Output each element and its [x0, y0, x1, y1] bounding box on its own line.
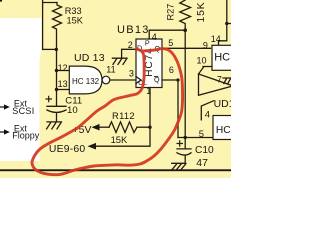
wire main vertical [56, 49, 58, 105]
wire pin 5 to pin 9 [162, 47, 211, 49]
svg-text:P: P [145, 39, 150, 48]
svg-text:3: 3 [129, 68, 134, 78]
ground C11 [47, 113, 62, 129]
bottom bus line [0, 169, 231, 171]
wire pin 10 stub [203, 66, 212, 68]
resistor R112 [109, 122, 137, 133]
wire pin 13 [57, 89, 70, 91]
resistor R27 [180, 0, 191, 30]
svg-text:13: 13 [58, 79, 68, 89]
red annotation loop [32, 49, 183, 175]
node R112 junction [148, 126, 151, 129]
wire pin 6 [162, 80, 178, 138]
svg-text:15K: 15K [196, 2, 207, 23]
svg-text:C10: C10 [195, 145, 214, 156]
svg-text:HC 132: HC 132 [72, 77, 100, 86]
capacitor C10 [177, 138, 191, 163]
svg-text:5: 5 [199, 128, 204, 139]
node R27 preset junction [183, 28, 187, 32]
svg-text:4: 4 [152, 32, 157, 42]
resistor R33 [53, 3, 62, 50]
ground C10 [172, 163, 186, 169]
wire junction h [43, 48, 57, 50]
flipflop HC74 UB13 [136, 39, 162, 88]
svg-text:10: 10 [67, 105, 78, 116]
capacitor C11 plus [46, 96, 53, 102]
wire R27 rail down [184, 30, 186, 137]
svg-text:UD1: UD1 [214, 99, 231, 110]
+5V arrow [92, 124, 100, 131]
svg-text:15K: 15K [67, 16, 84, 26]
svg-text:12: 12 [58, 63, 68, 73]
wire top jog [43, 2, 57, 4]
svg-text:7: 7 [217, 75, 222, 85]
svg-text:UB13: UB13 [117, 24, 150, 36]
svg-text:2: 2 [128, 40, 133, 50]
svg-text:47: 47 [196, 158, 208, 169]
wire pin 2 [122, 49, 136, 58]
Ext Floppy arrow [0, 129, 10, 134]
wire gate output to pin 3 [110, 79, 136, 81]
svg-text:UD 13: UD 13 [74, 52, 105, 64]
wire left vertical [42, 0, 44, 49]
UE9-60 arrow [88, 143, 97, 150]
svg-text:9: 9 [203, 41, 208, 51]
wire pin 4 preset [149, 30, 185, 39]
svg-text:4: 4 [205, 108, 210, 119]
schematic paper background [0, 0, 231, 178]
node C10 junction [184, 136, 187, 139]
svg-text:SCSI: SCSI [12, 106, 34, 116]
svg-text:10: 10 [197, 56, 207, 66]
node right rail [225, 22, 228, 25]
svg-text:Floppy: Floppy [12, 131, 40, 141]
ground pin 7 [223, 78, 231, 84]
wire rail stub right [227, 23, 231, 25]
svg-text:15K: 15K [111, 134, 128, 145]
wire pin 12 [57, 70, 70, 72]
wire stub to buffer [199, 67, 204, 74]
svg-text:UE9-60: UE9-60 [49, 144, 85, 155]
svg-text:5: 5 [168, 38, 173, 48]
nand gate U-D13 HC132 [69, 66, 102, 94]
buffer UD1 triangle [199, 74, 232, 95]
chip HC1 lower right [213, 116, 235, 140]
node pin13 [55, 88, 58, 91]
svg-text:R112: R112 [112, 110, 135, 121]
ground pin 2 [112, 58, 127, 64]
wire right rail [219, 0, 227, 45]
gate output bubble [102, 76, 110, 84]
wire pin 1 rail [96, 88, 150, 147]
svg-text:11: 11 [106, 64, 115, 74]
capacitor C11 [47, 106, 66, 112]
svg-text:14: 14 [211, 34, 221, 44]
node pin6 rail [176, 78, 179, 81]
capacitor C10 plus [177, 140, 184, 146]
wire +5V to R112 [100, 126, 110, 128]
corner mark [0, 0, 2, 2]
svg-text:R27: R27 [166, 4, 176, 21]
svg-text:6: 6 [169, 65, 174, 75]
wire R112 to pin1 rail [137, 126, 150, 128]
svg-text:HC 1: HC 1 [216, 125, 231, 136]
node pin12 [55, 69, 58, 72]
Ext SCSI arrow [0, 104, 10, 109]
wire C10 net [178, 137, 213, 139]
chip HC1 upper right [212, 45, 235, 70]
wire pin 4 lower [201, 101, 213, 120]
clock triangle [136, 77, 141, 84]
white scan margin [0, 18, 42, 161]
svg-text:HC 1: HC 1 [214, 52, 231, 64]
node junction R33 [55, 48, 58, 51]
